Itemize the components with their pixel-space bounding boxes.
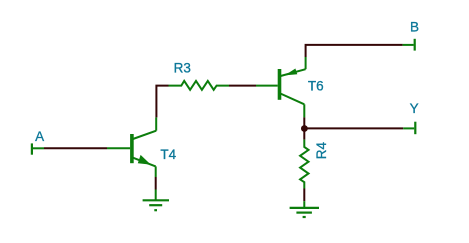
junction dot [301, 125, 308, 132]
terminal B [403, 39, 415, 51]
ground under T4 [143, 190, 169, 211]
svg-text:R4: R4 [314, 142, 329, 160]
transistor T4 [107, 117, 156, 177]
wire node to Y [304, 127, 403, 129]
wire T4 collector to R3 (corner) [156, 86, 168, 118]
wire R4 to ground [303, 189, 305, 202]
svg-text:R3: R3 [174, 60, 191, 75]
resistor R4 [300, 140, 308, 189]
svg-text:T4: T4 [160, 147, 176, 162]
wire A to T4 base [44, 147, 107, 149]
svg-text:T6: T6 [308, 79, 324, 94]
transistor T6 [256, 57, 306, 117]
wire R3 to T6 base [229, 85, 256, 87]
terminal Y [403, 122, 415, 135]
terminal A [32, 143, 44, 154]
wire T4 emitter to ground [155, 177, 157, 190]
wire T6 collector to node [303, 117, 305, 139]
wire T6 emitter to B [306, 45, 403, 57]
svg-text:B: B [410, 19, 419, 34]
svg-text:Y: Y [410, 101, 419, 116]
ground under R4 [290, 201, 319, 217]
resistor R3 [169, 81, 230, 90]
svg-text:A: A [35, 129, 44, 144]
